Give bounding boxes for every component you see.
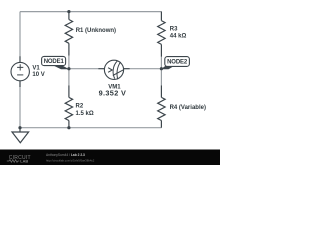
svg-text:LAB: LAB [20,159,28,164]
svg-text:AnthonySum44 / Lab 2 2.3: AnthonySum44 / Lab 2 2.3 [46,153,85,157]
voltage source V1 [11,56,29,87]
resistor R2 [65,85,72,127]
junction dot R1 top [67,10,70,13]
node NODE2 flag [161,57,189,70]
svg-text:10 V: 10 V [32,72,44,78]
svg-text:44 kΩ: 44 kΩ [170,34,187,40]
wire middle right (VM1 to NODE2) [130,68,162,70]
svg-text:R3: R3 [170,26,178,32]
wire middle left (NODE1 to VM1) [69,68,99,70]
svg-text:R2: R2 [76,104,84,110]
svg-text:9.352 V: 9.352 V [99,89,127,98]
svg-text:R1 (Unknown): R1 (Unknown) [76,28,116,34]
svg-text:http://circuitlab.com/c/5xfz9/: http://circuitlab.com/c/5xfz9/5ae38b4c2 [46,158,95,162]
wire R3 bottom lead to NODE2 [160,56,162,68]
footer bar [0,150,220,166]
wire left vertical lower [19,87,21,128]
svg-text:NODE1: NODE1 [44,59,65,65]
wire top horizontal [20,11,161,13]
wire bottom horizontal [20,127,162,129]
svg-text:1.5 kΩ: 1.5 kΩ [76,111,94,117]
resistor R1 [65,12,72,56]
resistor R4 [158,85,165,127]
wire left vertical upper [19,12,21,57]
junction dot ground [18,126,21,129]
junction dot NODE2 [160,67,163,70]
resistor R3 [158,12,165,57]
svg-text:NODE2: NODE2 [167,60,188,66]
ground [12,128,29,143]
wire NODE1 to R2 [68,69,70,86]
junction dot NODE1 [67,67,70,70]
svg-text:V1: V1 [32,66,40,72]
svg-text:R4 (Variable): R4 (Variable) [170,105,206,111]
wire NODE2 to R4 [160,69,162,86]
node NODE1 flag [42,56,70,69]
footer CircuitLab logo [7,155,31,164]
voltmeter VM1 [98,60,129,79]
junction dot R2 bottom [67,126,70,129]
wire R1 bottom lead to NODE1 [68,55,70,68]
